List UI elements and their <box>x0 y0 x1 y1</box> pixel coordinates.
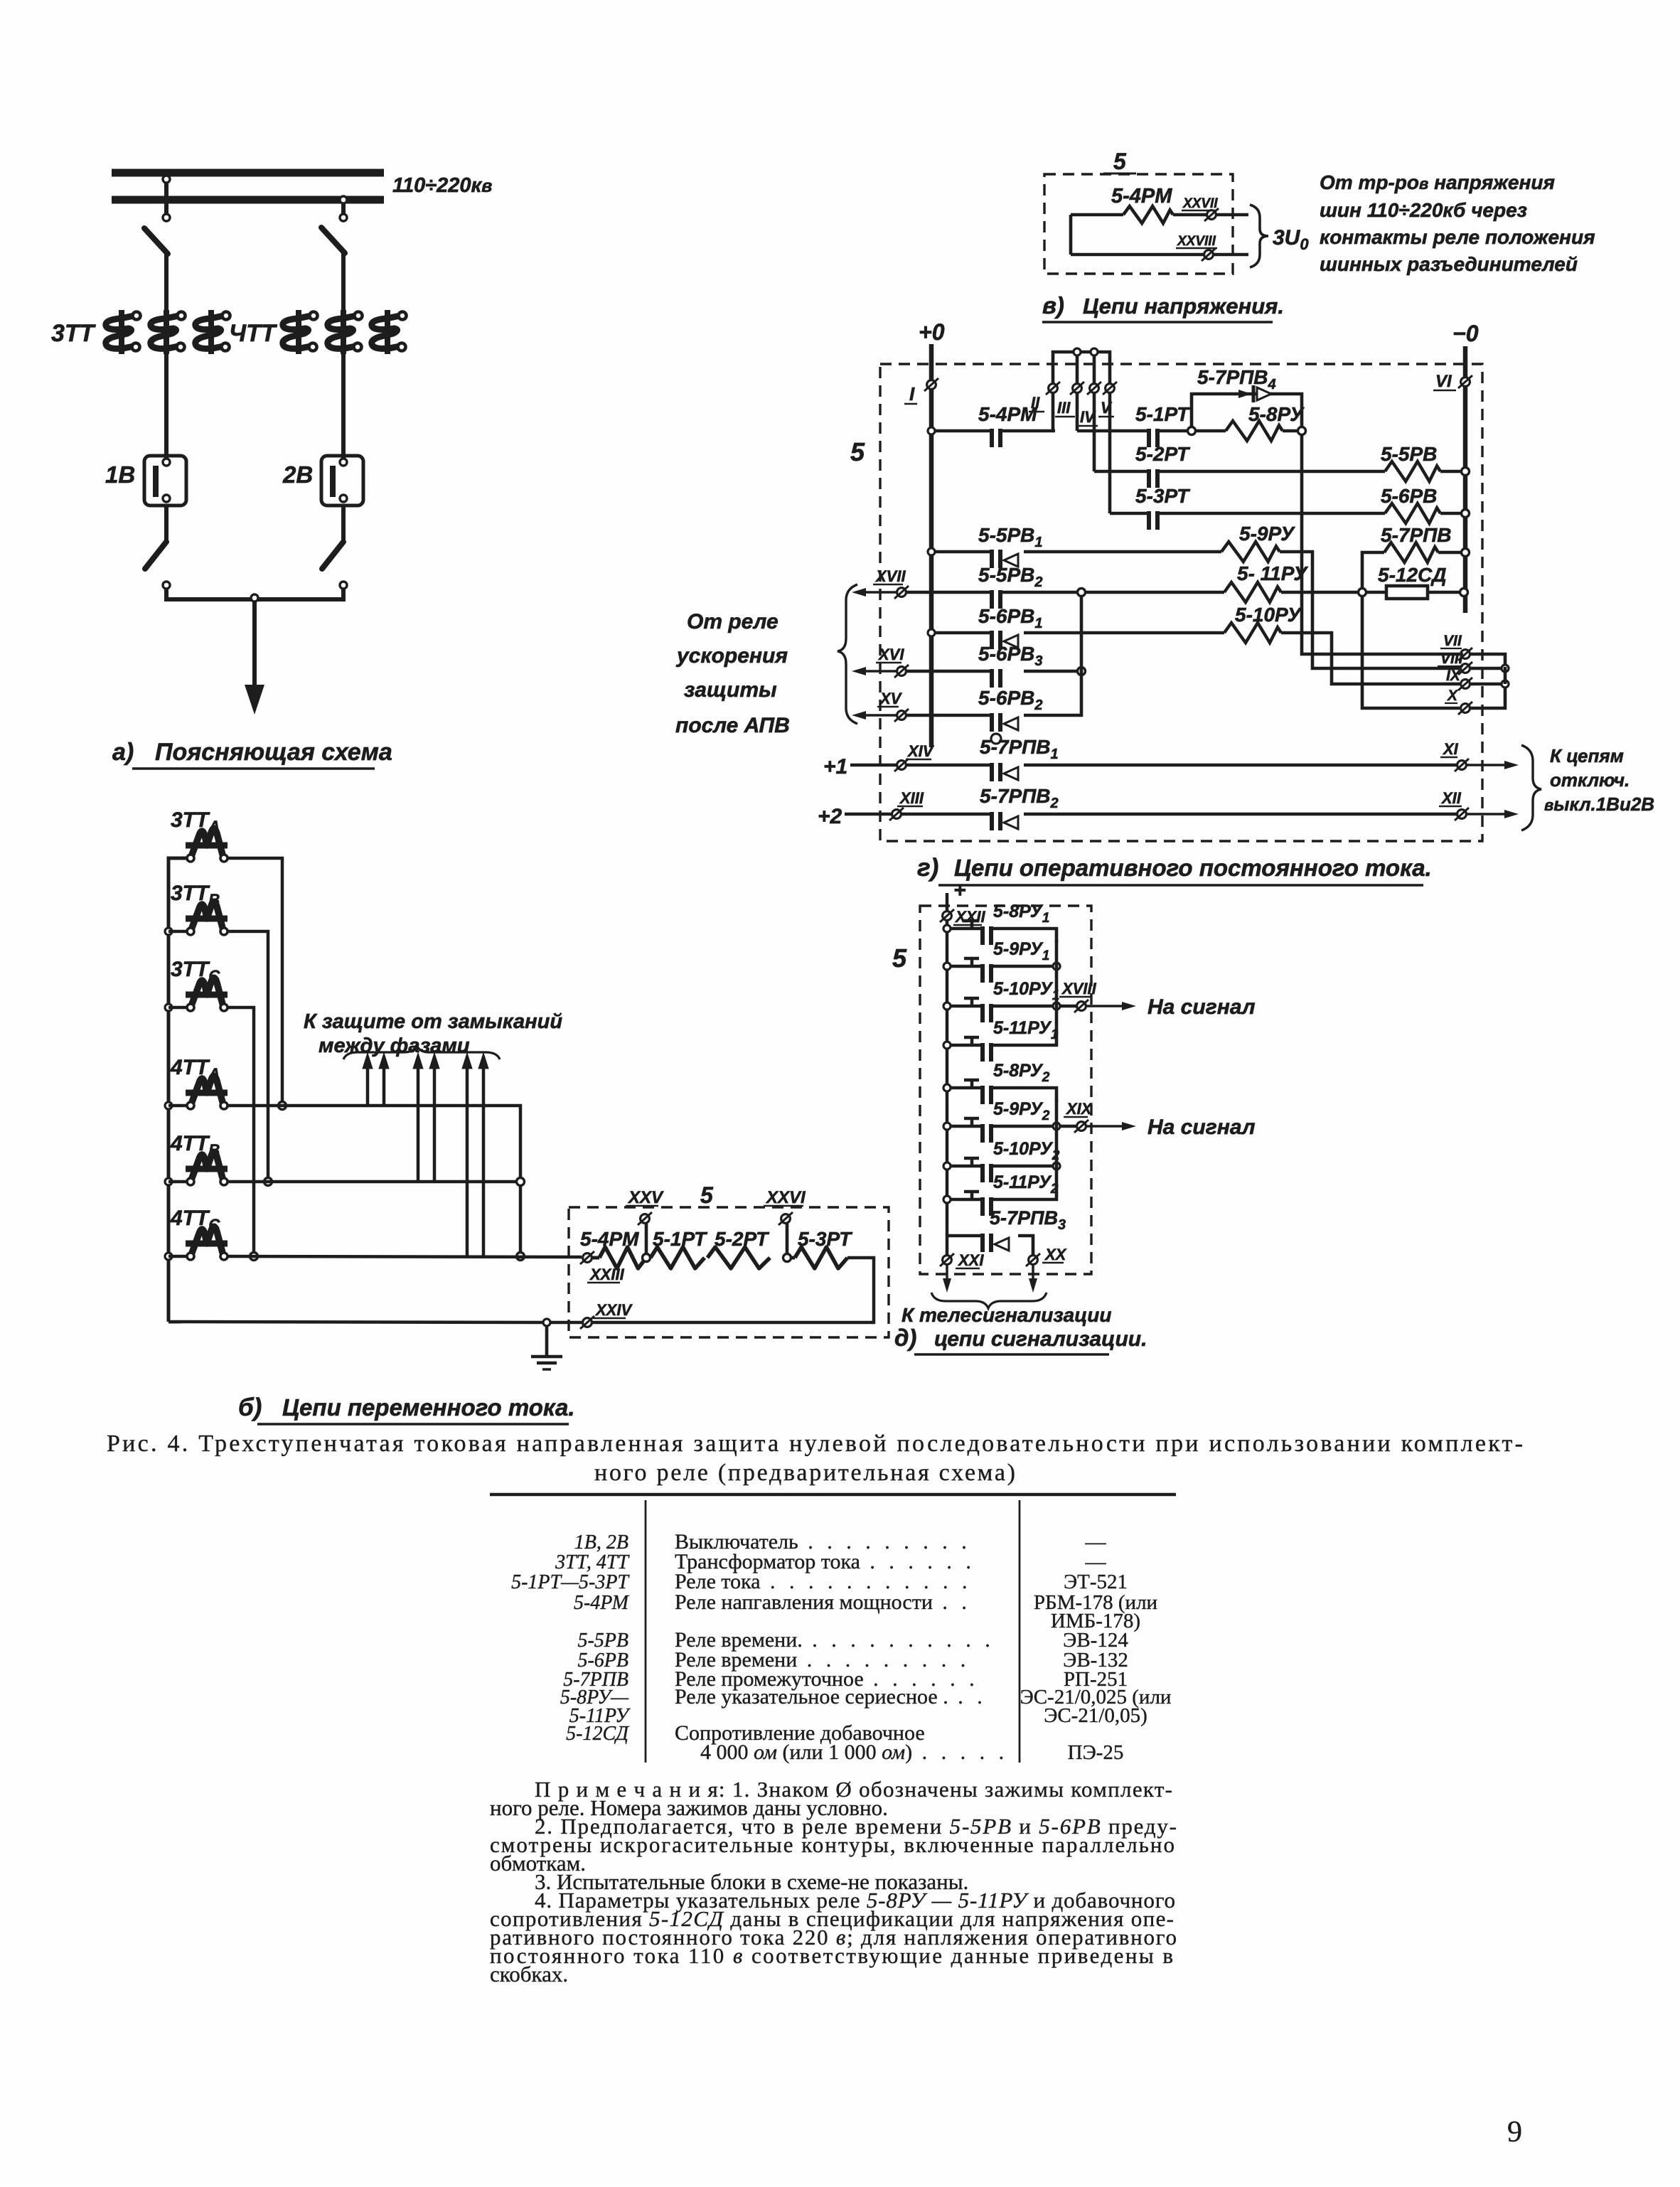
brace to telesignalling <box>931 1293 1047 1308</box>
wire row6 from +0 bus <box>928 629 935 636</box>
terminal VI on -0 bus <box>1461 378 1470 387</box>
svg-text:Поясняющая схема: Поясняющая схема <box>155 739 392 766</box>
svg-text:XII: XII <box>1440 789 1462 807</box>
contact 5-3РТ <box>1147 511 1151 530</box>
svg-text:5: 5 <box>700 1182 714 1208</box>
resistor 5-4РМ voltage winding <box>1071 213 1123 217</box>
contact 5-1РТ <box>1147 429 1151 447</box>
node on left CT bus <box>165 928 172 935</box>
svg-text:К телесигнализации: К телесигнализации <box>901 1304 1112 1326</box>
svg-text:3ТТА: 3ТТА <box>171 808 220 835</box>
brace 3U0 <box>1250 205 1268 267</box>
resistor 5-7РПВ (right) <box>1384 542 1438 562</box>
terminal XII with arrow out <box>1457 810 1467 819</box>
coil 5-3РТ <box>791 1256 795 1260</box>
node: disconnector 1 lower contact <box>163 582 170 589</box>
svg-text:От тр-ров напряжения: От тр-ров напряжения <box>1320 171 1555 193</box>
svg-text:5: 5 <box>1113 149 1127 174</box>
svg-text:4ТТС: 4ТТС <box>170 1207 220 1234</box>
svg-text:XXIV: XXIV <box>594 1301 633 1319</box>
svg-text:5-9РУ1: 5-9РУ1 <box>993 939 1049 963</box>
resistor 5-9РУ <box>1221 542 1280 562</box>
svg-text:VII: VII <box>1443 633 1462 649</box>
svg-text:после АПВ: после АПВ <box>675 714 790 737</box>
svg-text:3ТТ, 4ТТ: 3ТТ, 4ТТ <box>555 1551 630 1573</box>
svg-text:шин 110÷220кб через: шин 110÷220кб через <box>1320 199 1527 221</box>
svg-text:На сигнал: На сигнал <box>1147 995 1256 1019</box>
svg-text:Цепи переменного тока.: Цепи переменного тока. <box>282 1394 575 1421</box>
CT secondary winding 3ТТВ <box>192 902 223 928</box>
wire row8 across <box>906 714 990 717</box>
contact 5-8РУ1 (indicating relay) <box>943 925 951 932</box>
svg-text:X: X <box>1447 688 1459 704</box>
svg-text:а): а) <box>112 739 134 766</box>
table vertical rule 1 <box>645 1500 647 1763</box>
section b) AC circuits <box>0 0 1 1</box>
terminal XV with arrow <box>860 714 897 717</box>
resistor 5-10РУ <box>1224 623 1281 643</box>
bus +0 (left DC bus) <box>929 344 934 747</box>
wire feeder 2 elbow to junction <box>253 589 343 599</box>
contact 5-7РПВ2 <box>990 812 994 830</box>
terminal XVII with arrow <box>860 591 897 594</box>
wire row5 across <box>906 591 990 594</box>
wire row6 elbow down to IX <box>1281 633 1460 684</box>
svg-text:5-4РМ: 5-4РМ <box>978 403 1037 425</box>
node on jumper (III) <box>1074 348 1081 355</box>
resistor 5-12СД (box resistor) <box>1366 591 1386 594</box>
wire +2 to terminal XII <box>1024 813 1457 816</box>
svg-text:5-12СД: 5-12СД <box>1378 564 1446 586</box>
svg-text:5: 5 <box>892 943 907 973</box>
resistor 5-11РУ <box>1224 582 1281 602</box>
resistor 5-5РВ <box>1385 461 1440 481</box>
section a) explanatory single-line scheme <box>0 0 1 1</box>
svg-text:5-6РВ1: 5-6РВ1 <box>978 605 1043 631</box>
svg-text:Рис. 4. Трехступенчатая ток: Рис. 4. Трехступенчатая токовая направле… <box>107 1431 1523 1457</box>
terminal XVIII output to signal <box>1060 1005 1076 1008</box>
node on left CT bus <box>165 1178 172 1185</box>
wire X drop from 5-12СД left node <box>1362 596 1460 708</box>
svg-text:XVIII: XVIII <box>1061 980 1097 998</box>
terminal XXIV <box>583 1318 592 1327</box>
CT secondary winding 4ТТВ <box>192 1152 223 1178</box>
svg-text:4ТТА: 4ТТА <box>170 1056 220 1083</box>
wire signalling bus top stub <box>946 893 949 911</box>
svg-text:9: 9 <box>1507 2116 1522 2149</box>
bus 110-220kV lower busbar <box>112 196 384 204</box>
svg-text:+0: +0 <box>919 319 945 345</box>
wire row1 from +0 bus <box>928 427 935 434</box>
wire row2 to 5-5РВ <box>1159 470 1385 474</box>
arrows to phase-fault protection <box>366 1064 370 1106</box>
breaker 2B <box>321 456 363 506</box>
svg-text:5-8РУ2: 5-8РУ2 <box>993 1061 1050 1085</box>
wire feeder 1 CT to breaker <box>164 354 168 458</box>
CT secondary winding 4ТТС <box>192 1226 223 1253</box>
svg-text:От реле: От реле <box>687 610 779 633</box>
wire row3 from terminal V <box>1108 392 1112 513</box>
wire XXIV to ground junction <box>550 1321 582 1325</box>
svg-text:контакты реле положения: контакты реле положения <box>1320 226 1595 248</box>
wire voltage loop bottom <box>1071 253 1204 257</box>
svg-text:XXVII: XXVII <box>1182 196 1218 211</box>
CT secondary winding 3ТТС <box>192 978 223 1004</box>
svg-text:XVII: XVII <box>874 567 906 585</box>
relay case dashed box (DC circuits) <box>880 364 1482 841</box>
svg-text:XXVI: XXVI <box>765 1188 806 1207</box>
node 5-12СД right on -0 bus <box>1460 589 1468 597</box>
wire 3ТТВ to row B <box>228 931 268 1178</box>
svg-text:XIX: XIX <box>1065 1100 1093 1118</box>
svg-text:5-9РУ: 5-9РУ <box>1239 523 1295 545</box>
svg-text:5- 11РУ: 5- 11РУ <box>1237 562 1308 584</box>
wire row2 to -0 bus <box>1440 470 1463 474</box>
CT secondary winding 4ТТА <box>192 1076 223 1102</box>
svg-text:−0: −0 <box>1452 321 1479 346</box>
wire row2 from terminal IV <box>1093 392 1096 471</box>
svg-text:5-5РВ: 5-5РВ <box>1381 443 1437 465</box>
contact 5-4РМ <box>990 429 994 447</box>
relay case dashed box (AC circuits) <box>569 1207 889 1337</box>
section d) signalling circuits <box>0 0 1 1</box>
wire +2 to terminal XIII <box>845 813 892 816</box>
svg-text:цепи сигнализации.: цепи сигнализации. <box>934 1327 1147 1351</box>
node: disconnector 1 upper contact <box>163 214 170 221</box>
wire 3ТТС to row C <box>228 1007 254 1253</box>
svg-text:VI: VI <box>1435 372 1452 391</box>
wire feeder 1 to CT <box>164 252 168 310</box>
CT secondary winding 3ТТА <box>192 828 223 855</box>
terminal VIII group wire <box>1461 664 1470 673</box>
svg-text:5-7РПВ: 5-7РПВ <box>1381 524 1452 546</box>
brace: to tripping circuits <box>1521 745 1541 830</box>
svg-text:+1: +1 <box>823 755 847 779</box>
contact 5-8РУ2 (indicating relay) <box>943 1084 951 1091</box>
terminal VII group wire <box>1461 650 1470 659</box>
svg-text:5-7РПВ4: 5-7РПВ4 <box>1197 366 1276 392</box>
terminal II <box>1049 384 1058 393</box>
brace over protection arrows <box>343 1045 500 1059</box>
wire voltage loop left side <box>1069 215 1073 255</box>
svg-text:в): в) <box>1042 292 1064 319</box>
svg-text:5-5РВ1: 5-5РВ1 <box>978 524 1043 550</box>
terminal XXI <box>943 1256 952 1265</box>
contact 5-9РУ2 (indicating relay) <box>943 1123 951 1130</box>
current transformer 4TT (three primaries) <box>283 316 311 348</box>
bus left vertical (CT star point side) <box>168 858 187 1322</box>
coil 5-4РМ current winding <box>592 1256 599 1260</box>
ground tap wire <box>545 1326 549 1355</box>
svg-text:ПЭ-25: ПЭ-25 <box>1068 1741 1124 1764</box>
node: common junction of feeders <box>251 594 258 601</box>
terminal XXII <box>943 911 952 921</box>
wire 5-7РПВ left leg down <box>1362 552 1384 590</box>
svg-text:5-6РВ3: 5-6РВ3 <box>978 643 1043 669</box>
contact 5-10РУ1 (indicating relay) <box>943 1002 951 1010</box>
svg-text:выкл.1Ви2В: выкл.1Ви2В <box>1544 793 1654 815</box>
svg-text:5-11РУ2: 5-11РУ2 <box>993 1172 1059 1197</box>
contact 5-10РУ2 (indicating relay) <box>943 1162 951 1170</box>
brace: from acceleration relays after APV <box>838 584 857 724</box>
node 5-12СД left <box>1281 591 1359 594</box>
svg-text:5-2РТ: 5-2РТ <box>715 1228 770 1250</box>
node: feeder 1 tap on upper bus <box>163 176 170 183</box>
svg-text:XIII: XIII <box>899 789 924 807</box>
disconnector blade feeder 2 (lower) <box>322 542 343 569</box>
bus signalling vertical <box>946 920 949 1256</box>
terminal III <box>1073 384 1082 393</box>
svg-text:2В: 2В <box>282 461 313 488</box>
relay case dashed box (signalling) <box>920 906 1091 1274</box>
wire group1 right tie <box>1055 940 1059 1034</box>
svg-text:смотрены искрогасительные конт: смотрены искрогасительные контуры, включ… <box>490 1832 1175 1857</box>
svg-text:+: + <box>953 879 966 902</box>
section v) voltage circuits <box>0 0 1 1</box>
node: disconnector 2 lower contact <box>340 582 347 589</box>
wire group2 right tie <box>1055 1099 1059 1188</box>
wire +1 to terminal XI <box>1024 764 1457 767</box>
svg-text:д): д) <box>894 1325 916 1351</box>
wire feeder 1 elbow to junction <box>166 589 256 599</box>
wire 5-7РПВ3 to terminal XX <box>1018 1236 1033 1256</box>
contact 5-6РВ3 <box>990 669 994 688</box>
resistor 5-6РВ <box>1385 503 1440 523</box>
external jumper wire II-III-IV-V <box>1053 352 1110 385</box>
svg-text:IX: IX <box>1446 668 1462 684</box>
wire to brace (upper) <box>1216 213 1248 217</box>
svg-text:К цепям: К цепям <box>1550 745 1624 766</box>
svg-text:г): г) <box>917 854 938 882</box>
wire VII-X tie vertical <box>1504 667 1507 684</box>
svg-text:шинных разъединителей: шинных разъединителей <box>1320 253 1578 275</box>
terminal XI with arrow out <box>1457 761 1467 770</box>
wire feeder 2 below breaker <box>341 506 346 543</box>
breaker 1B <box>144 456 186 506</box>
node XXV junction <box>643 1254 651 1262</box>
contact 5-11РУ1 (indicating relay) <box>943 1042 951 1049</box>
svg-text:скобках.: скобках. <box>490 1962 568 1987</box>
node row5 mid <box>1002 591 1080 594</box>
terminal XXVIII <box>1204 250 1214 260</box>
svg-text:5-3РТ: 5-3РТ <box>798 1228 853 1250</box>
contact 5-7РПВ1 <box>990 763 994 781</box>
svg-text:ЧТТ: ЧТТ <box>229 320 278 347</box>
contact 5-6РВ2 with seal-in circle <box>990 713 994 732</box>
svg-text:4ТТВ: 4ТТВ <box>170 1132 220 1159</box>
terminal XX <box>1029 1256 1038 1265</box>
terminal I on +0 bus <box>927 380 936 390</box>
coil 5-2РТ <box>707 1247 770 1268</box>
wire row7 across <box>906 670 990 673</box>
node on left CT bus <box>165 1004 172 1011</box>
wire row5 to 5-11РУ <box>1085 591 1224 594</box>
wire 3ТТА to row A <box>228 858 282 1102</box>
svg-text:5-2РТ: 5-2РТ <box>1135 443 1191 465</box>
ground symbol <box>531 1355 562 1359</box>
svg-text:5-11РУ1: 5-11РУ1 <box>993 1018 1058 1042</box>
wire row1 III riser to 5-1РТ <box>1076 392 1079 431</box>
svg-text:XX: XX <box>1044 1246 1067 1263</box>
disconnector blade feeder 1 (upper) <box>144 228 168 254</box>
svg-text:постоянного тока 110 в соотве: постоянного тока 110 в соответствующие д… <box>490 1943 1173 1968</box>
svg-text:5-4РМ: 5-4РМ <box>574 1592 630 1614</box>
svg-text:VIII: VIII <box>1440 651 1464 667</box>
svg-text:5-5РВ2: 5-5РВ2 <box>978 564 1043 590</box>
svg-text:XXII: XXII <box>954 908 985 926</box>
disconnector blade feeder 1 (lower) <box>145 542 166 569</box>
wire row4 to 5-9РУ <box>1024 550 1221 554</box>
svg-text:5-7РПВ3: 5-7РПВ3 <box>990 1207 1066 1233</box>
wire row7 to node <box>1024 670 1080 673</box>
wire 5-7РПВ to -0 bus <box>1438 551 1463 555</box>
node row1 right <box>1159 429 1190 433</box>
node row1 far right <box>1298 427 1306 435</box>
svg-text:1В, 2В: 1В, 2В <box>574 1531 628 1554</box>
svg-text:XXV: XXV <box>627 1188 664 1207</box>
node on jumper (IV) <box>1091 348 1098 355</box>
svg-text:К защите от замыканий: К защите от замыканий <box>304 1010 562 1033</box>
contact 5-2РТ <box>1147 469 1151 488</box>
svg-text:XIV: XIV <box>906 742 935 760</box>
svg-text:+2: +2 <box>818 805 842 828</box>
svg-text:XXI: XXI <box>957 1251 984 1269</box>
svg-text:На сигнал: На сигнал <box>1147 1116 1256 1139</box>
svg-text:5: 5 <box>850 437 865 466</box>
svg-text:5-4РМ: 5-4РМ <box>1111 185 1172 208</box>
svg-text:5-10РУ2: 5-10РУ2 <box>993 1139 1060 1163</box>
contact 5-7РПВ3 <box>947 1234 981 1238</box>
wire to brace (lower) <box>1214 253 1248 257</box>
arrow XXI down to telesignalling <box>946 1265 948 1284</box>
section g) operative DC circuits <box>0 0 1 1</box>
node on left CT bus <box>165 1102 172 1109</box>
svg-text:ЭС-21/0,05): ЭС-21/0,05) <box>1044 1704 1147 1727</box>
wire 5-3РТ return loop <box>592 1258 874 1322</box>
bus 110-220kV upper busbar <box>112 169 384 177</box>
wire row6 to 5-10РУ <box>1024 631 1224 635</box>
node XXVI junction <box>783 1254 791 1262</box>
svg-text:отключ.: отключ. <box>1550 769 1630 791</box>
wire feeder 1 drop <box>164 183 168 222</box>
wire feeder 2 CT to breaker <box>341 354 346 458</box>
wire feeder 1 below breaker <box>164 506 168 543</box>
wire row4 from +0 bus <box>928 548 935 555</box>
svg-text:5-3РТ: 5-3РТ <box>1135 485 1191 507</box>
terminal XIX output to signal <box>1060 1125 1076 1128</box>
svg-text:3ТТ: 3ТТ <box>51 320 97 347</box>
svg-text:5-1РТ: 5-1РТ <box>653 1228 708 1250</box>
bus -0 (right DC bus) <box>1463 346 1468 613</box>
table top rule <box>490 1493 1176 1497</box>
svg-text:5-9РУ2: 5-9РУ2 <box>993 1099 1050 1123</box>
svg-text:5-7РПВ1: 5-7РПВ1 <box>980 736 1059 762</box>
svg-text:Реле напгавления мощности . .: Реле напгавления мощности . . <box>675 1590 971 1614</box>
wire +1 to terminal XIV <box>850 764 897 767</box>
svg-text:3ТТС: 3ТТС <box>171 958 220 985</box>
contact 5-5РВ2 <box>990 590 994 609</box>
disconnector blade feeder 2 (upper) <box>321 228 345 253</box>
wire row A (phase A sum) <box>228 1106 520 1178</box>
wire +1 row <box>906 764 990 767</box>
terminal V <box>1106 384 1115 393</box>
svg-text:5-6РВ2: 5-6РВ2 <box>978 687 1043 713</box>
node: disconnector 2 upper contact <box>340 214 347 221</box>
relay case dashed box (voltage circuits) <box>1044 174 1233 274</box>
terminal IX group wire <box>1461 680 1470 689</box>
wire row1 to terminal II riser <box>1002 429 1055 433</box>
svg-text:защиты: защиты <box>684 678 777 702</box>
node on left CT bus <box>165 1253 172 1260</box>
wire feeder 2 tap on lower bus <box>340 196 347 203</box>
svg-text:4 000 ом (или 1 000 ом) . . .: 4 000 ом (или 1 000 ом) . . . . . <box>700 1740 1008 1764</box>
contact 5-5РВ1 (time relay) <box>990 550 994 568</box>
current transformer 3TT (three primaries) <box>106 316 134 348</box>
svg-text:3U0: 3U0 <box>1273 226 1309 253</box>
svg-text:Цепи оперативного постоянног: Цепи оперативного постоянного тока. <box>954 855 1432 881</box>
wire row3 to -0 bus <box>1440 512 1463 515</box>
terminal XVI with arrow <box>860 670 897 673</box>
svg-text:I: I <box>909 383 915 405</box>
svg-text:1В: 1В <box>105 461 135 488</box>
svg-text:5-8РУ1: 5-8РУ1 <box>993 902 1049 926</box>
contact 5-7РПВ4 with arrow <box>1220 392 1246 395</box>
outgoing line arrow <box>252 601 257 687</box>
svg-text:XXVIII: XXVIII <box>1177 234 1216 249</box>
svg-text:ного реле (предварительная схе: ного реле (предварительная схема) <box>594 1460 1015 1486</box>
coil 5-1РТ <box>651 1247 705 1268</box>
svg-text:XV: XV <box>879 690 903 707</box>
wire row3 to 5-6РВ <box>1159 512 1385 515</box>
svg-text:5-1РТ: 5-1РТ <box>1135 403 1191 425</box>
svg-text:XI: XI <box>1442 740 1459 758</box>
wire row B (phase B sum) <box>228 1180 517 1184</box>
wire row8 elbow up <box>1024 596 1081 715</box>
svg-text:III: III <box>1057 399 1071 417</box>
table vertical rule 2 <box>1019 1500 1021 1763</box>
svg-text:5-6РВ: 5-6РВ <box>1381 485 1437 507</box>
terminal XXVII <box>1207 210 1216 220</box>
wire VII drop from row1 <box>1302 434 1460 654</box>
svg-text:5-4РМ: 5-4РМ <box>580 1228 639 1250</box>
wire return to CT bus <box>168 1322 543 1322</box>
svg-text:ЭТ-521: ЭТ-521 <box>1064 1571 1128 1593</box>
svg-text:Реле указательное сериесное .: Реле указательное сериесное . . . <box>675 1685 987 1709</box>
contact 5-11РУ2 (indicating relay) <box>943 1196 951 1203</box>
resistor 5-8РУ (lower branch) <box>1195 429 1226 433</box>
svg-text:5-10РУ1: 5-10РУ1 <box>993 979 1059 1003</box>
wire feeder 2 to CT <box>341 252 346 310</box>
svg-text:110÷220кв: 110÷220кв <box>392 174 492 197</box>
svg-text:Цепи напряжения.: Цепи напряжения. <box>1083 294 1284 319</box>
terminal XXIII input <box>583 1253 592 1263</box>
svg-text:5-12СД: 5-12СД <box>566 1723 630 1745</box>
svg-text:3ТТВ: 3ТТВ <box>171 882 220 909</box>
svg-text:5-7РПВ2: 5-7РПВ2 <box>980 785 1059 811</box>
svg-text:5-1РТ—5-3РТ: 5-1РТ—5-3РТ <box>511 1571 630 1593</box>
terminal IV <box>1090 384 1099 393</box>
svg-text:XVI: XVI <box>877 646 904 663</box>
contact 5-9РУ1 (indicating relay) <box>943 963 951 970</box>
wire +2 row <box>901 813 990 816</box>
wire row4 elbow down to VIII <box>1280 552 1460 668</box>
contact 5-6РВ1 (time relay) <box>990 631 994 649</box>
terminal X group wire <box>1461 704 1470 713</box>
svg-text:ускорения: ускорения <box>675 644 788 668</box>
arrow XX down to telesignalling <box>1032 1265 1034 1284</box>
svg-text:5-10РУ: 5-10РУ <box>1235 604 1302 626</box>
svg-text:между фазами: между фазами <box>319 1034 470 1057</box>
